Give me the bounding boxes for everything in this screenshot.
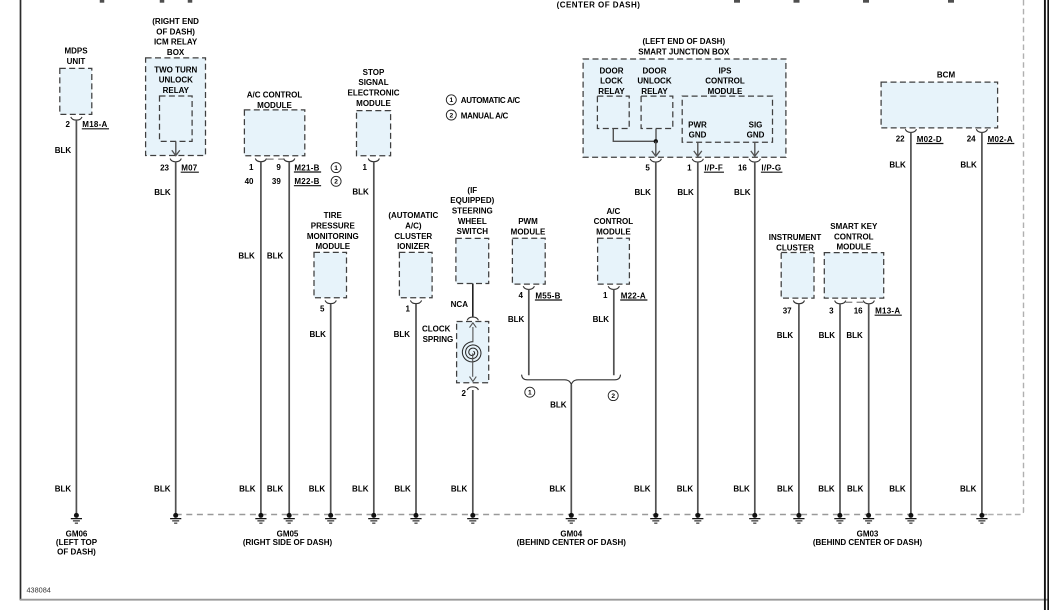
svg-text:1: 1 (363, 163, 368, 172)
svg-text:BLK: BLK (549, 484, 566, 493)
svg-text:(LEFT TOP: (LEFT TOP (56, 538, 98, 547)
svg-text:DOOR: DOOR (600, 66, 624, 75)
svg-text:SWITCH: SWITCH (457, 227, 489, 236)
svg-text:M02-A: M02-A (988, 135, 1013, 144)
module TPMS box (314, 252, 347, 297)
svg-text:CLUSTER: CLUSTER (394, 232, 432, 241)
connector cup pin 5 TPMS (325, 300, 336, 303)
svg-text:I/P-G: I/P-G (761, 164, 781, 173)
ground GM04 symbol 2 (653, 513, 658, 518)
brace joining wires (522, 375, 621, 385)
svg-text:M55-B: M55-B (535, 291, 560, 300)
svg-text:PWR: PWR (688, 120, 707, 129)
ground GM04 symbol 3 (695, 513, 700, 518)
svg-text:1: 1 (528, 390, 532, 397)
svg-text:37: 37 (783, 306, 792, 315)
svg-text:BLK: BLK (352, 188, 369, 197)
ICM relay box outer box (146, 58, 206, 156)
svg-text:16: 16 (738, 163, 747, 172)
svg-text:4: 4 (518, 291, 523, 300)
svg-text:BLK: BLK (634, 188, 651, 197)
svg-text:BLK: BLK (846, 331, 863, 340)
svg-text:MODULE: MODULE (315, 242, 350, 251)
svg-text:WHEEL: WHEEL (458, 217, 487, 226)
svg-text:EQUIPPED): EQUIPPED) (450, 196, 494, 205)
svg-text:MODULE: MODULE (708, 87, 743, 96)
clock spring output arrow (down) (472, 353, 474, 376)
svg-text:PRESSURE: PRESSURE (311, 222, 356, 231)
svg-text:1: 1 (406, 304, 411, 313)
svg-text:AUTOMATIC A/C: AUTOMATIC A/C (461, 96, 521, 105)
svg-text:SMART JUNCTION BOX: SMART JUNCTION BOX (638, 47, 730, 56)
svg-text:GM05: GM05 (277, 529, 299, 538)
svg-text:SIG: SIG (749, 120, 763, 129)
svg-text:22: 22 (896, 135, 905, 144)
svg-text:BLK: BLK (352, 484, 369, 493)
svg-text:STOP: STOP (363, 68, 385, 77)
svg-text:ELECTRONIC: ELECTRONIC (348, 89, 400, 98)
svg-text:BLK: BLK (267, 484, 284, 493)
svg-text:M21-B: M21-B (294, 163, 319, 172)
module IPS CONTROL MODULE box (682, 96, 772, 142)
svg-text:40: 40 (245, 177, 254, 186)
relay DOOR UNLOCK RELAY box (641, 96, 673, 128)
svg-text:MODULE: MODULE (511, 227, 546, 236)
connector cup pin 37 (793, 301, 804, 304)
svg-text:BLK: BLK (154, 484, 171, 493)
connector cup pin 5 (650, 159, 661, 162)
svg-text:1: 1 (687, 163, 692, 172)
wire steering switch to clock spring (472, 284, 474, 317)
svg-text:BLK: BLK (550, 401, 567, 410)
dashed continuation line (right elbow) (988, 0, 1024, 515)
svg-text:39: 39 (272, 177, 281, 186)
svg-text:RELAY: RELAY (598, 87, 625, 96)
svg-text:ICM RELAY: ICM RELAY (154, 38, 198, 47)
module PWM MODULE box (512, 238, 545, 284)
svg-text:BLK: BLK (309, 330, 326, 339)
svg-text:BLK: BLK (847, 484, 864, 493)
frame right border outer line (1047, 0, 1049, 610)
module A/C CONTROL MODULE left box (244, 110, 304, 156)
ground GM03 symbol 1 (796, 513, 801, 518)
svg-text:BLK: BLK (593, 315, 610, 324)
relay DOOR LOCK RELAY box (597, 96, 629, 128)
connector cup pin 16 smart key (863, 301, 874, 304)
connector bridge smart key (846, 301, 853, 303)
svg-text:STEERING: STEERING (452, 207, 493, 216)
svg-text:MODULE: MODULE (596, 227, 631, 236)
connector cup pin 1 ionizer (410, 300, 421, 303)
svg-text:MODULE: MODULE (836, 243, 871, 252)
wire W11 pin1 to GM04 (697, 162, 699, 513)
wire A/C mid to brace (613, 289, 615, 375)
svg-text:BLK: BLK (309, 484, 326, 493)
connector cup pin 2 MDPS (71, 117, 82, 120)
svg-text:2: 2 (611, 393, 615, 400)
svg-text:UNLOCK: UNLOCK (159, 76, 193, 85)
svg-text:M13-A: M13-A (875, 307, 900, 316)
connector cup pin 16 I/P-G (749, 159, 760, 162)
wire relay output arrow (175, 141, 177, 155)
wire W15 smart key 16 to GM03 (868, 304, 870, 513)
svg-text:438084: 438084 (27, 585, 51, 594)
ground GM05 symbol 3 (287, 513, 292, 518)
svg-text:LOCK: LOCK (600, 77, 623, 86)
wire PWR GND arrow to pin 1 (697, 142, 699, 156)
module MDPS UNIT box (60, 68, 92, 114)
ground GM04 symbol 4 (752, 513, 757, 518)
svg-text:BLK: BLK (677, 484, 694, 493)
svg-text:CLUSTER: CLUSTER (776, 244, 814, 253)
svg-text:MODULE: MODULE (356, 99, 391, 108)
svg-text:OF DASH): OF DASH) (156, 27, 195, 36)
connector cup pin 22 BCM (905, 129, 916, 132)
svg-text:(BEHIND CENTER OF DASH): (BEHIND CENTER OF DASH) (813, 538, 923, 547)
wire W7 ionizer to GM05 (415, 304, 417, 514)
connector cup pin 1 I/P-F (692, 159, 703, 162)
svg-text:MANUAL A/C: MANUAL A/C (461, 111, 509, 120)
frame left border (20, 0, 22, 600)
frame right border inner line (1044, 0, 1046, 610)
svg-text:BLK: BLK (238, 252, 255, 261)
svg-text:BLK: BLK (394, 484, 411, 493)
svg-text:CONTROL: CONTROL (705, 77, 745, 86)
wire W4 A/C pin9 to GM05 (288, 162, 290, 513)
svg-text:UNLOCK: UNLOCK (637, 77, 671, 86)
brace circled 1 (525, 387, 535, 397)
svg-text:BLK: BLK (734, 188, 751, 197)
svg-text:5: 5 (320, 304, 325, 313)
svg-text:SMART KEY: SMART KEY (830, 222, 878, 231)
relay TWO TURN UNLOCK RELAY box (160, 96, 193, 141)
svg-text:BLK: BLK (239, 484, 256, 493)
svg-text:IONIZER: IONIZER (397, 242, 430, 251)
svg-text:BLK: BLK (889, 161, 906, 170)
svg-text:DOOR: DOOR (643, 66, 667, 75)
svg-text:16: 16 (854, 306, 863, 315)
svg-text:BLK: BLK (55, 146, 72, 155)
connector cup pin 1 A/C mid (608, 286, 619, 289)
module A/C CONTROL MODULE middle box (598, 238, 630, 284)
svg-text:M22-A: M22-A (621, 291, 646, 300)
svg-text:CONTROL: CONTROL (594, 217, 634, 226)
svg-text:3: 3 (829, 306, 834, 315)
switch STEERING WHEEL SWITCH box (456, 238, 489, 283)
svg-text:2: 2 (449, 112, 453, 119)
svg-text:(LEFT END OF DASH): (LEFT END OF DASH) (642, 37, 725, 46)
legend circled 1 (446, 95, 456, 105)
svg-text:BLK: BLK (733, 484, 750, 493)
wire SIG GND arrow to pin 16 (754, 142, 756, 156)
connector cup pin 3 smart key (835, 301, 846, 304)
connector cup pin 1 stop signal (368, 159, 379, 162)
frame bottom border (20, 599, 1049, 601)
module BCM box (881, 82, 998, 128)
svg-text:I/P-F: I/P-F (704, 164, 723, 173)
svg-text:BLK: BLK (777, 331, 794, 340)
wire W10 pin5 to GM04 (655, 162, 657, 513)
svg-text:(RIGHT END: (RIGHT END (152, 17, 199, 26)
svg-text:SIGNAL: SIGNAL (358, 78, 388, 87)
connector cup pin 9/39 (284, 159, 295, 162)
ground GM05 symbol 7 (470, 513, 475, 518)
module STOP SIGNAL ELECTRONIC MODULE box (357, 111, 391, 156)
svg-text:2: 2 (66, 120, 71, 129)
svg-text:GM04: GM04 (560, 529, 582, 538)
svg-text:M22-B: M22-B (294, 177, 319, 186)
wire W17 BCM 24 to GM03 (981, 133, 983, 514)
svg-text:MDPS: MDPS (64, 47, 88, 56)
svg-text:CLOCK: CLOCK (422, 325, 451, 334)
svg-text:BLK: BLK (960, 161, 977, 170)
svg-text:BLK: BLK (394, 330, 411, 339)
svg-text:2: 2 (334, 179, 338, 186)
wire W16 BCM 22 to GM03 (910, 133, 912, 514)
svg-text:BLK: BLK (634, 484, 651, 493)
svg-text:IPS: IPS (719, 66, 733, 75)
svg-text:A/C): A/C) (405, 222, 422, 231)
wire W14 smart key 3 to GM03 (839, 304, 841, 513)
svg-text:(BEHIND CENTER OF DASH): (BEHIND CENTER OF DASH) (517, 538, 627, 547)
cropped text remnants top edge (100, 0, 105, 3)
ground GM05 symbol 4 (328, 513, 333, 518)
svg-text:MONITORING: MONITORING (307, 232, 359, 241)
module SMART KEY CONTROL MODULE box (824, 253, 883, 299)
svg-text:M18-A: M18-A (82, 120, 107, 129)
ground GM05 symbol 6 (414, 513, 419, 518)
module CLUSTER IONIZER box (399, 252, 432, 297)
svg-text:PWM: PWM (518, 217, 538, 226)
svg-text:MODULE: MODULE (257, 101, 292, 110)
connector cup pin 24 BCM (976, 129, 987, 132)
svg-text:CONTROL: CONTROL (834, 232, 874, 241)
svg-text:(RIGHT SIDE OF DASH): (RIGHT SIDE OF DASH) (243, 538, 333, 547)
svg-text:BLK: BLK (267, 252, 284, 261)
svg-text:2: 2 (462, 389, 467, 398)
ground GM03 symbol 5 (979, 513, 984, 518)
connector cup clock spring bottom (467, 387, 478, 390)
wire PWM to brace (528, 289, 530, 375)
wire W8 clock spring to GM05 (472, 390, 474, 513)
clock spring coil spiral (462, 342, 481, 362)
svg-text:5: 5 (645, 163, 650, 172)
legend circled 2 manual (331, 176, 341, 186)
wire door lock relay to junction (613, 129, 654, 142)
svg-text:TWO TURN: TWO TURN (154, 65, 197, 74)
svg-text:BLK: BLK (508, 315, 525, 324)
svg-text:UNIT: UNIT (67, 57, 86, 66)
svg-text:(IF: (IF (467, 186, 477, 195)
connector cup clock spring top (467, 317, 478, 320)
wire W5 TPMS to GM05 (330, 304, 332, 514)
svg-text:RELAY: RELAY (163, 86, 190, 95)
svg-text:M02-D: M02-D (917, 135, 942, 144)
ground GM05 symbol 5 (371, 513, 376, 518)
wire W6 stop signal to GM05 (373, 162, 375, 513)
clock spring input arrow (up) (472, 327, 474, 342)
svg-text:INSTRUMENT: INSTRUMENT (769, 233, 822, 242)
ground GM05 symbol 1 (173, 513, 178, 518)
svg-text:BLK: BLK (154, 188, 171, 197)
svg-text:NCA: NCA (451, 300, 469, 309)
svg-text:24: 24 (967, 135, 976, 144)
svg-text:1: 1 (449, 97, 453, 104)
svg-text:(AUTOMATIC: (AUTOMATIC (388, 211, 438, 220)
wire W3 A/C pin1 to GM05 (260, 162, 262, 513)
legend circled 1 automatic (331, 163, 341, 173)
wire W13 instrument cluster to GM03 (798, 304, 800, 514)
svg-text:(CENTER OF DASH): (CENTER OF DASH) (557, 0, 641, 9)
svg-text:RELAY: RELAY (641, 87, 668, 96)
svg-text:9: 9 (276, 163, 281, 172)
svg-text:BCM: BCM (937, 70, 956, 79)
clock spring box (457, 322, 489, 383)
connector cup pin 1/40 (255, 159, 266, 162)
svg-text:1: 1 (249, 163, 254, 172)
svg-text:BLK: BLK (818, 484, 835, 493)
wire W12 pin16 to GM04 (754, 162, 756, 513)
svg-text:BLK: BLK (777, 484, 794, 493)
wire W9 brace to GM04 (570, 385, 572, 514)
svg-text:1: 1 (334, 165, 338, 172)
connector cup pin 4 PWM (523, 286, 534, 289)
ground bus dashed line (176, 514, 990, 516)
svg-text:GM03: GM03 (857, 529, 879, 538)
legend circled 2 (446, 110, 456, 120)
ground GM03 symbol 2 (837, 513, 842, 518)
svg-text:GM06: GM06 (66, 529, 88, 538)
connector bridge A/C left (266, 158, 273, 160)
ground GM06 symbol (74, 513, 79, 518)
ground GM04 symbol 1 (569, 513, 574, 518)
wire W1 MDPS to GM06 (75, 120, 77, 513)
svg-text:BLK: BLK (889, 484, 906, 493)
svg-text:BLK: BLK (960, 484, 977, 493)
wire relay junction arrow to pin 5 (655, 141, 657, 155)
svg-text:A/C CONTROL: A/C CONTROL (247, 90, 303, 99)
ground GM03 symbol 4 (908, 513, 913, 518)
svg-text:GND: GND (689, 131, 707, 140)
svg-text:SPRING: SPRING (423, 335, 454, 344)
svg-text:BLK: BLK (819, 331, 836, 340)
svg-text:BLK: BLK (55, 484, 72, 493)
svg-text:23: 23 (160, 163, 169, 172)
ground GM05 symbol 2 (258, 513, 263, 518)
svg-text:1: 1 (603, 291, 608, 300)
wire door unlock relay to junction (655, 129, 657, 142)
connector cup pin 23 M07 (170, 159, 181, 162)
svg-text:BOX: BOX (167, 48, 185, 57)
svg-text:BLK: BLK (677, 188, 694, 197)
svg-text:GND: GND (747, 131, 765, 140)
svg-text:TIRE: TIRE (324, 211, 343, 220)
brace circled 2 (608, 391, 618, 401)
smart junction box outer box (583, 59, 786, 157)
svg-text:A/C: A/C (607, 207, 621, 216)
wire W2 relay to GM05 (175, 162, 177, 513)
svg-text:M07: M07 (181, 164, 198, 173)
svg-text:OF DASH): OF DASH) (57, 548, 96, 557)
ground GM03 symbol 3 (866, 513, 871, 518)
svg-text:BLK: BLK (451, 484, 468, 493)
module INSTRUMENT CLUSTER box (781, 253, 814, 299)
junction node dot (654, 139, 658, 143)
